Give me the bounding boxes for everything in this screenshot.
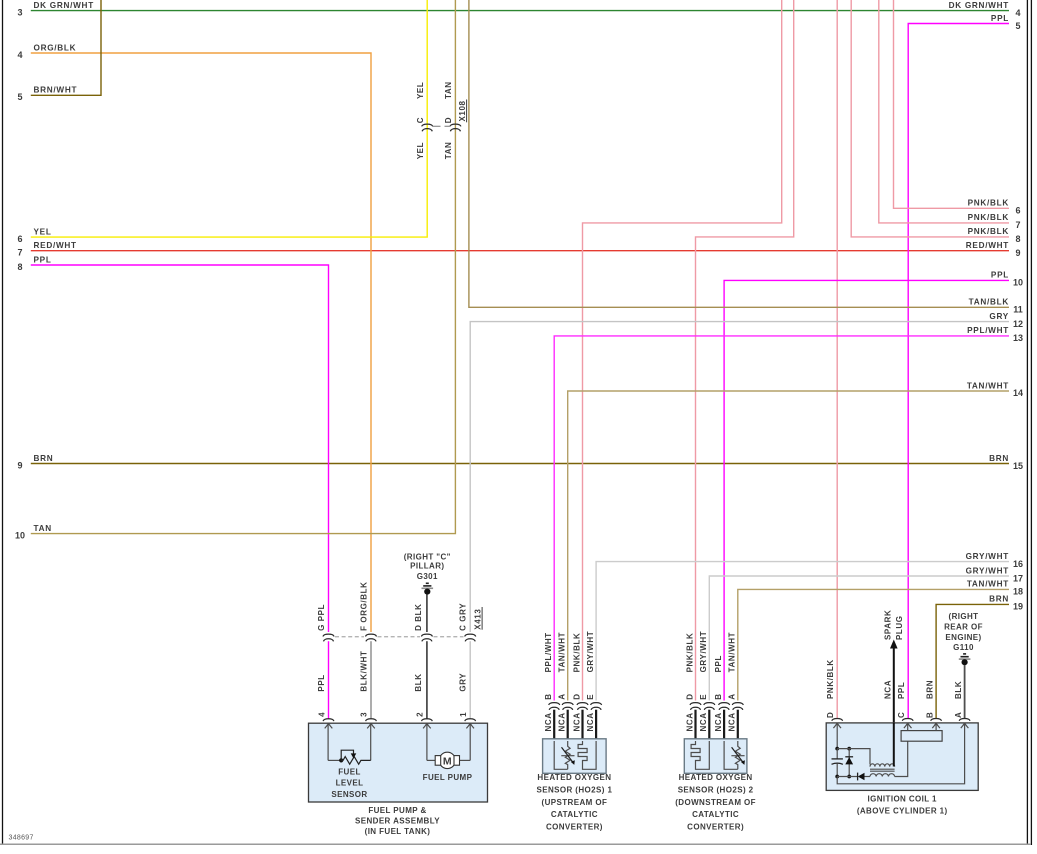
svg-text:CATALYTIC: CATALYTIC — [551, 810, 598, 819]
wire coil pin D internal — [836, 723, 838, 748]
wire BRN pin9-left to pin15-right — [31, 463, 1009, 465]
svg-text:14: 14 — [1013, 388, 1023, 398]
svg-text:3: 3 — [17, 7, 22, 17]
wire NCA HO2S2 pin D to sensor — [694, 710, 696, 740]
svg-text:D BLK: D BLK — [414, 603, 423, 630]
svg-text:ENGINE): ENGINE) — [945, 633, 981, 642]
svg-text:11: 11 — [1013, 305, 1023, 315]
svg-text:7: 7 — [17, 248, 22, 258]
svg-text:BRN: BRN — [34, 454, 54, 463]
border frame left edge — [2, 0, 4, 845]
connector X108 pin D on TAN wire — [450, 124, 461, 126]
svg-text:(ABOVE CYLINDER 1): (ABOVE CYLINDER 1) — [857, 806, 948, 815]
wire NCA HO2S2 pin A to sensor — [737, 710, 739, 740]
svg-text:LEVEL: LEVEL — [336, 779, 364, 788]
svg-text:PPL: PPL — [34, 255, 52, 264]
wire PNK/BLK from top to HO2S1 pin D — [583, 0, 782, 701]
HO2S2 sensing element variable resistor — [724, 741, 738, 769]
svg-text:(DOWNSTREAM OF: (DOWNSTREAM OF — [675, 798, 756, 807]
svg-text:CONVERTER): CONVERTER) — [687, 822, 744, 831]
wire NCA HO2S2 pin E to sensor — [708, 710, 710, 740]
svg-text:G110: G110 — [953, 643, 974, 652]
svg-text:NCA: NCA — [586, 712, 595, 731]
connector HO2S1 pin B — [549, 703, 560, 705]
svg-text:17: 17 — [1013, 573, 1023, 583]
svg-text:PPL: PPL — [897, 682, 906, 699]
coil entry pin B — [931, 718, 942, 720]
node junction dots coil bottom rail — [835, 775, 839, 779]
svg-text:PNK/BLK: PNK/BLK — [968, 227, 1009, 236]
svg-text:TAN: TAN — [34, 524, 52, 533]
svg-text:NCA: NCA — [685, 712, 694, 731]
border frame right double edge — [1026, 0, 1028, 845]
fuel level sensor variable resistor — [328, 759, 341, 761]
svg-text:GRY: GRY — [459, 673, 468, 692]
svg-text:IGNITION COIL 1: IGNITION COIL 1 — [867, 794, 937, 803]
wire NCA HO2S1 pin B to sensor — [553, 710, 555, 740]
connector X413 pin F on ORG/BLK wire — [366, 634, 377, 636]
svg-text:PPL/WHT: PPL/WHT — [544, 632, 553, 672]
svg-text:10: 10 — [15, 530, 25, 540]
svg-text:13: 13 — [1013, 333, 1023, 343]
connector HO2S1 pin D — [577, 703, 588, 705]
svg-text:TAN/WHT: TAN/WHT — [558, 632, 567, 673]
fuel box entry pin 4 — [323, 719, 334, 721]
wire BLK/WHT X413-F to fuel pump assembly pin 3 — [370, 641, 372, 719]
wire PNK/BLK pin8-right going off top — [851, 0, 1009, 237]
svg-text:F ORG/BLK: F ORG/BLK — [359, 581, 368, 630]
svg-text:PNK/BLK: PNK/BLK — [826, 659, 835, 699]
svg-text:(UPSTREAM OF: (UPSTREAM OF — [542, 798, 608, 807]
wire fuel box pin2 internal — [426, 724, 428, 761]
svg-text:X108: X108 — [458, 100, 467, 121]
svg-text:(RIGHT: (RIGHT — [949, 612, 979, 621]
svg-text:NCA: NCA — [728, 712, 737, 731]
wire fuel box pin1 internal — [469, 724, 471, 761]
svg-text:10: 10 — [1013, 278, 1023, 288]
svg-text:GRY/WHT: GRY/WHT — [966, 566, 1009, 575]
svg-text:HEATED OXYGEN: HEATED OXYGEN — [537, 773, 611, 782]
wire NCA HO2S2 pin B to sensor — [723, 710, 725, 740]
svg-text:GRY: GRY — [989, 312, 1009, 321]
capacitor C1 coil — [836, 749, 838, 759]
border frame bottom edge — [0, 843, 1031, 845]
svg-text:BRN/WHT: BRN/WHT — [34, 86, 78, 95]
svg-text:BLK/WHT: BLK/WHT — [359, 651, 368, 692]
svg-text:C GRY: C GRY — [459, 603, 468, 631]
svg-text:GRY/WHT: GRY/WHT — [966, 552, 1009, 561]
svg-text:FUEL PUMP &: FUEL PUMP & — [368, 806, 426, 815]
svg-text:CATALYTIC: CATALYTIC — [692, 810, 739, 819]
svg-text:ORG/BLK: ORG/BLK — [34, 43, 77, 52]
node junction dots coil primary top — [835, 747, 839, 751]
wire PPL pin10-right to HO2S2 pin B — [724, 280, 1009, 700]
svg-text:HEATED OXYGEN: HEATED OXYGEN — [679, 773, 753, 782]
svg-text:PNK/BLK: PNK/BLK — [685, 633, 694, 673]
connector HO2S1 pin A — [562, 703, 573, 705]
svg-text:PPL/WHT: PPL/WHT — [967, 326, 1009, 335]
fuel box entry pin 2 — [422, 719, 433, 721]
svg-text:BLK: BLK — [954, 681, 963, 699]
heated oxygen sensor 1 box — [543, 739, 607, 774]
wire PPL pin8-left to connector X413 pin G — [31, 265, 329, 632]
svg-text:BLK: BLK — [414, 673, 423, 691]
svg-text:C: C — [897, 712, 906, 718]
spark plug arrow — [893, 646, 895, 723]
svg-text:TAN/BLK: TAN/BLK — [969, 298, 1009, 307]
coil entry pin A — [959, 718, 970, 720]
svg-text:TAN: TAN — [444, 81, 453, 99]
svg-text:PPL: PPL — [991, 14, 1009, 23]
connector HO2S2 pin D — [690, 703, 701, 705]
svg-text:D: D — [826, 712, 835, 718]
wire fuel box pin3 internal — [370, 724, 372, 761]
svg-text:12: 12 — [1013, 319, 1023, 329]
coil entry pin C — [902, 718, 913, 720]
HO2S2 heater element — [691, 741, 709, 769]
wire secondary to terminal bar — [895, 742, 908, 777]
svg-text:DK GRN/WHT: DK GRN/WHT — [34, 1, 94, 10]
wire NCA HO2S1 pin E to sensor — [595, 710, 597, 740]
svg-text:B: B — [925, 712, 934, 718]
svg-text:YEL: YEL — [34, 227, 52, 236]
svg-text:3: 3 — [360, 712, 369, 717]
wire BRN pin19-right to ignition coil pin B — [936, 604, 1009, 719]
ignition coil 1 box — [826, 723, 978, 791]
svg-text:SENSOR (HO2S) 1: SENSOR (HO2S) 1 — [537, 786, 613, 795]
svg-text:B: B — [714, 693, 723, 699]
svg-text:PPL: PPL — [714, 655, 723, 672]
svg-text:(IN FUEL TANK): (IN FUEL TANK) — [365, 827, 431, 836]
svg-text:CONVERTER): CONVERTER) — [546, 822, 603, 831]
svg-text:NCA: NCA — [883, 680, 892, 699]
svg-text:15: 15 — [1013, 461, 1023, 471]
wire coil pin B internal — [935, 723, 937, 730]
wire PPL pin5-right to ignition coil pin C — [908, 24, 1009, 720]
heated oxygen sensor 2 box — [684, 739, 747, 774]
transformer T1 core — [870, 768, 895, 770]
svg-text:(RIGHT "C": (RIGHT "C" — [404, 552, 451, 561]
svg-text:6: 6 — [17, 234, 22, 244]
transformer T1 secondary winding — [870, 774, 895, 777]
wire fuel box pin4 internal — [327, 724, 329, 761]
wire TAN/BLK pin11-right going off top — [469, 0, 1009, 307]
svg-text:PNK/BLK: PNK/BLK — [968, 213, 1009, 222]
svg-text:SENSOR: SENSOR — [331, 790, 367, 799]
svg-text:PLUG: PLUG — [895, 615, 904, 640]
svg-text:5: 5 — [17, 92, 22, 102]
connector X413 pin C on GRY wire — [465, 634, 476, 636]
fuel pump and sender assembly box — [309, 723, 488, 802]
svg-text:NCA: NCA — [699, 712, 708, 731]
svg-text:TAN/WHT: TAN/WHT — [967, 580, 1009, 589]
svg-text:4: 4 — [17, 50, 22, 60]
wire NCA HO2S1 pin D to sensor — [581, 710, 583, 740]
svg-text:PPL: PPL — [991, 271, 1009, 280]
svg-text:GRY/WHT: GRY/WHT — [699, 631, 708, 673]
svg-text:G301: G301 — [417, 572, 438, 581]
wire ORG/BLK pin4-left to connector X413 pin F — [31, 53, 371, 632]
wire TAN pin10-left to connector X108 pin D and off top — [31, 0, 456, 534]
svg-text:348697: 348697 — [9, 835, 34, 842]
svg-text:18: 18 — [1013, 587, 1023, 597]
svg-text:A: A — [728, 693, 737, 699]
connector X108 link dash — [433, 125, 451, 127]
svg-text:BRN: BRN — [989, 595, 1009, 604]
svg-text:7: 7 — [1015, 220, 1020, 230]
fuel box entry pin 1 — [465, 719, 476, 721]
svg-text:9: 9 — [1015, 248, 1020, 258]
svg-text:C: C — [416, 117, 425, 123]
wire spark plug into coil — [893, 723, 895, 767]
svg-text:E: E — [699, 694, 708, 700]
wire GRY pin12-right to connector X413 pin C — [470, 322, 1009, 632]
connector HO2S2 pin E — [704, 703, 715, 705]
connector HO2S2 pin A — [732, 703, 743, 705]
wire BLK X413-D to fuel pump assembly pin 2 — [426, 641, 428, 719]
svg-text:G PPL: G PPL — [317, 604, 326, 631]
svg-text:SPARK: SPARK — [883, 610, 892, 640]
svg-text:B: B — [544, 693, 553, 699]
svg-text:E: E — [586, 694, 595, 700]
svg-text:NCA: NCA — [714, 712, 723, 731]
connector HO2S2 pin B — [719, 703, 730, 705]
wire PPL X413-G to fuel pump assembly pin 4 — [328, 641, 330, 719]
wire YEL pin6-left to connector X108 pin C and off top — [31, 0, 427, 237]
svg-text:SENDER ASSEMBLY: SENDER ASSEMBLY — [355, 817, 440, 826]
svg-text:FUEL PUMP: FUEL PUMP — [423, 773, 473, 782]
coil terminal bar — [901, 731, 942, 742]
ground G110 symbol — [963, 653, 966, 655]
svg-text:D: D — [685, 693, 694, 699]
svg-text:DK GRN/WHT: DK GRN/WHT — [949, 1, 1009, 10]
wire GRY/WHT pin16-right to HO2S1 pin E — [596, 562, 1009, 701]
svg-text:BRN: BRN — [989, 454, 1009, 463]
coil entry pin D — [832, 718, 843, 720]
fuel box entry pin 3 — [366, 719, 377, 721]
svg-text:TAN: TAN — [444, 142, 453, 160]
svg-text:1: 1 — [459, 712, 468, 717]
wire coil pin A internal — [837, 723, 964, 784]
svg-text:FUEL: FUEL — [338, 767, 361, 776]
svg-text:TAN/WHT: TAN/WHT — [728, 632, 737, 673]
svg-text:PNK/BLK: PNK/BLK — [572, 633, 581, 673]
connector X413 pin G on PPL wire — [323, 634, 334, 636]
HO2S1 sensing element variable resistor — [554, 741, 568, 769]
wire GRY/WHT pin17-right to HO2S2 pin E — [709, 576, 1009, 701]
connector X108 pin C on YEL wire — [422, 124, 433, 126]
svg-text:GRY/WHT: GRY/WHT — [586, 631, 595, 673]
wire BRN/WHT pin5-left going off top — [31, 0, 101, 95]
connector X413 pin D on BLK wire — [421, 634, 432, 636]
svg-text:YEL: YEL — [416, 82, 425, 99]
wire PNK/BLK from top to HO2S2 pin D — [696, 0, 794, 701]
connector X413 link dashes — [335, 636, 364, 638]
svg-text:19: 19 — [1013, 602, 1023, 612]
wire GRY X413-C to fuel pump assembly pin 1 — [469, 641, 471, 719]
svg-text:PILLAR): PILLAR) — [410, 562, 444, 571]
wire PNK/BLK from top to ignition coil pin D — [836, 0, 838, 719]
diode D2 coil (horizontal) — [857, 773, 859, 781]
svg-text:A: A — [558, 693, 567, 699]
svg-text:RED/WHT: RED/WHT — [34, 241, 77, 250]
transformer T1 primary winding — [870, 764, 895, 767]
wire RED/WHT pin7-left to pin9-right — [31, 250, 1009, 252]
svg-text:TAN/WHT: TAN/WHT — [967, 381, 1009, 390]
fuel pump motor M — [427, 759, 435, 761]
svg-text:X413: X413 — [473, 609, 482, 630]
svg-text:NCA: NCA — [558, 712, 567, 731]
svg-text:2: 2 — [416, 712, 425, 717]
HO2S1 heater element — [578, 741, 596, 769]
svg-text:M: M — [443, 755, 452, 767]
wire PNK/BLK pin6-right going off top — [894, 0, 1010, 208]
wire coil bottom rail — [837, 776, 857, 778]
diode D1 coil (vertical) — [848, 749, 850, 777]
svg-text:NCA: NCA — [572, 712, 581, 731]
wire coil top link to primary winding — [837, 749, 870, 765]
wire coil pin C internal — [907, 723, 909, 730]
connector HO2S1 pin E — [591, 703, 602, 705]
svg-text:NCA: NCA — [544, 712, 553, 731]
svg-text:16: 16 — [1013, 559, 1023, 569]
wire PNK/BLK pin7-right going off top — [879, 0, 1009, 223]
svg-text:SENSOR (HO2S) 2: SENSOR (HO2S) 2 — [678, 786, 754, 795]
wire TAN/WHT pin14-right to HO2S1 pin A — [568, 391, 1009, 701]
svg-text:8: 8 — [17, 262, 22, 272]
svg-text:A: A — [954, 712, 963, 718]
wire DK GRN/WHT pin3-left to pin4-right — [31, 10, 1009, 12]
svg-text:D: D — [444, 117, 453, 123]
wire BLK ground G301 to connector X413 pin D — [426, 595, 428, 633]
svg-text:4: 4 — [1015, 8, 1020, 18]
svg-text:5: 5 — [1015, 21, 1020, 31]
wire NCA HO2S1 pin A to sensor — [567, 710, 569, 740]
wire BLK ground G110 to ignition coil pin A — [964, 665, 966, 719]
svg-text:YEL: YEL — [416, 142, 425, 159]
ground G301 symbol — [426, 582, 429, 584]
svg-text:4: 4 — [318, 712, 327, 717]
svg-text:PNK/BLK: PNK/BLK — [968, 199, 1009, 208]
svg-text:8: 8 — [1015, 234, 1020, 244]
svg-text:PPL: PPL — [317, 674, 326, 691]
svg-text:6: 6 — [1015, 206, 1020, 216]
svg-text:D: D — [572, 693, 581, 699]
svg-text:BRN: BRN — [925, 680, 934, 699]
svg-text:9: 9 — [17, 460, 22, 470]
svg-text:REAR OF: REAR OF — [944, 622, 983, 631]
svg-text:RED/WHT: RED/WHT — [966, 241, 1009, 250]
wire PPL/WHT pin13-right to HO2S1 pin B — [554, 336, 1009, 701]
wire TAN/WHT pin18-right to HO2S2 pin A — [738, 589, 1009, 700]
